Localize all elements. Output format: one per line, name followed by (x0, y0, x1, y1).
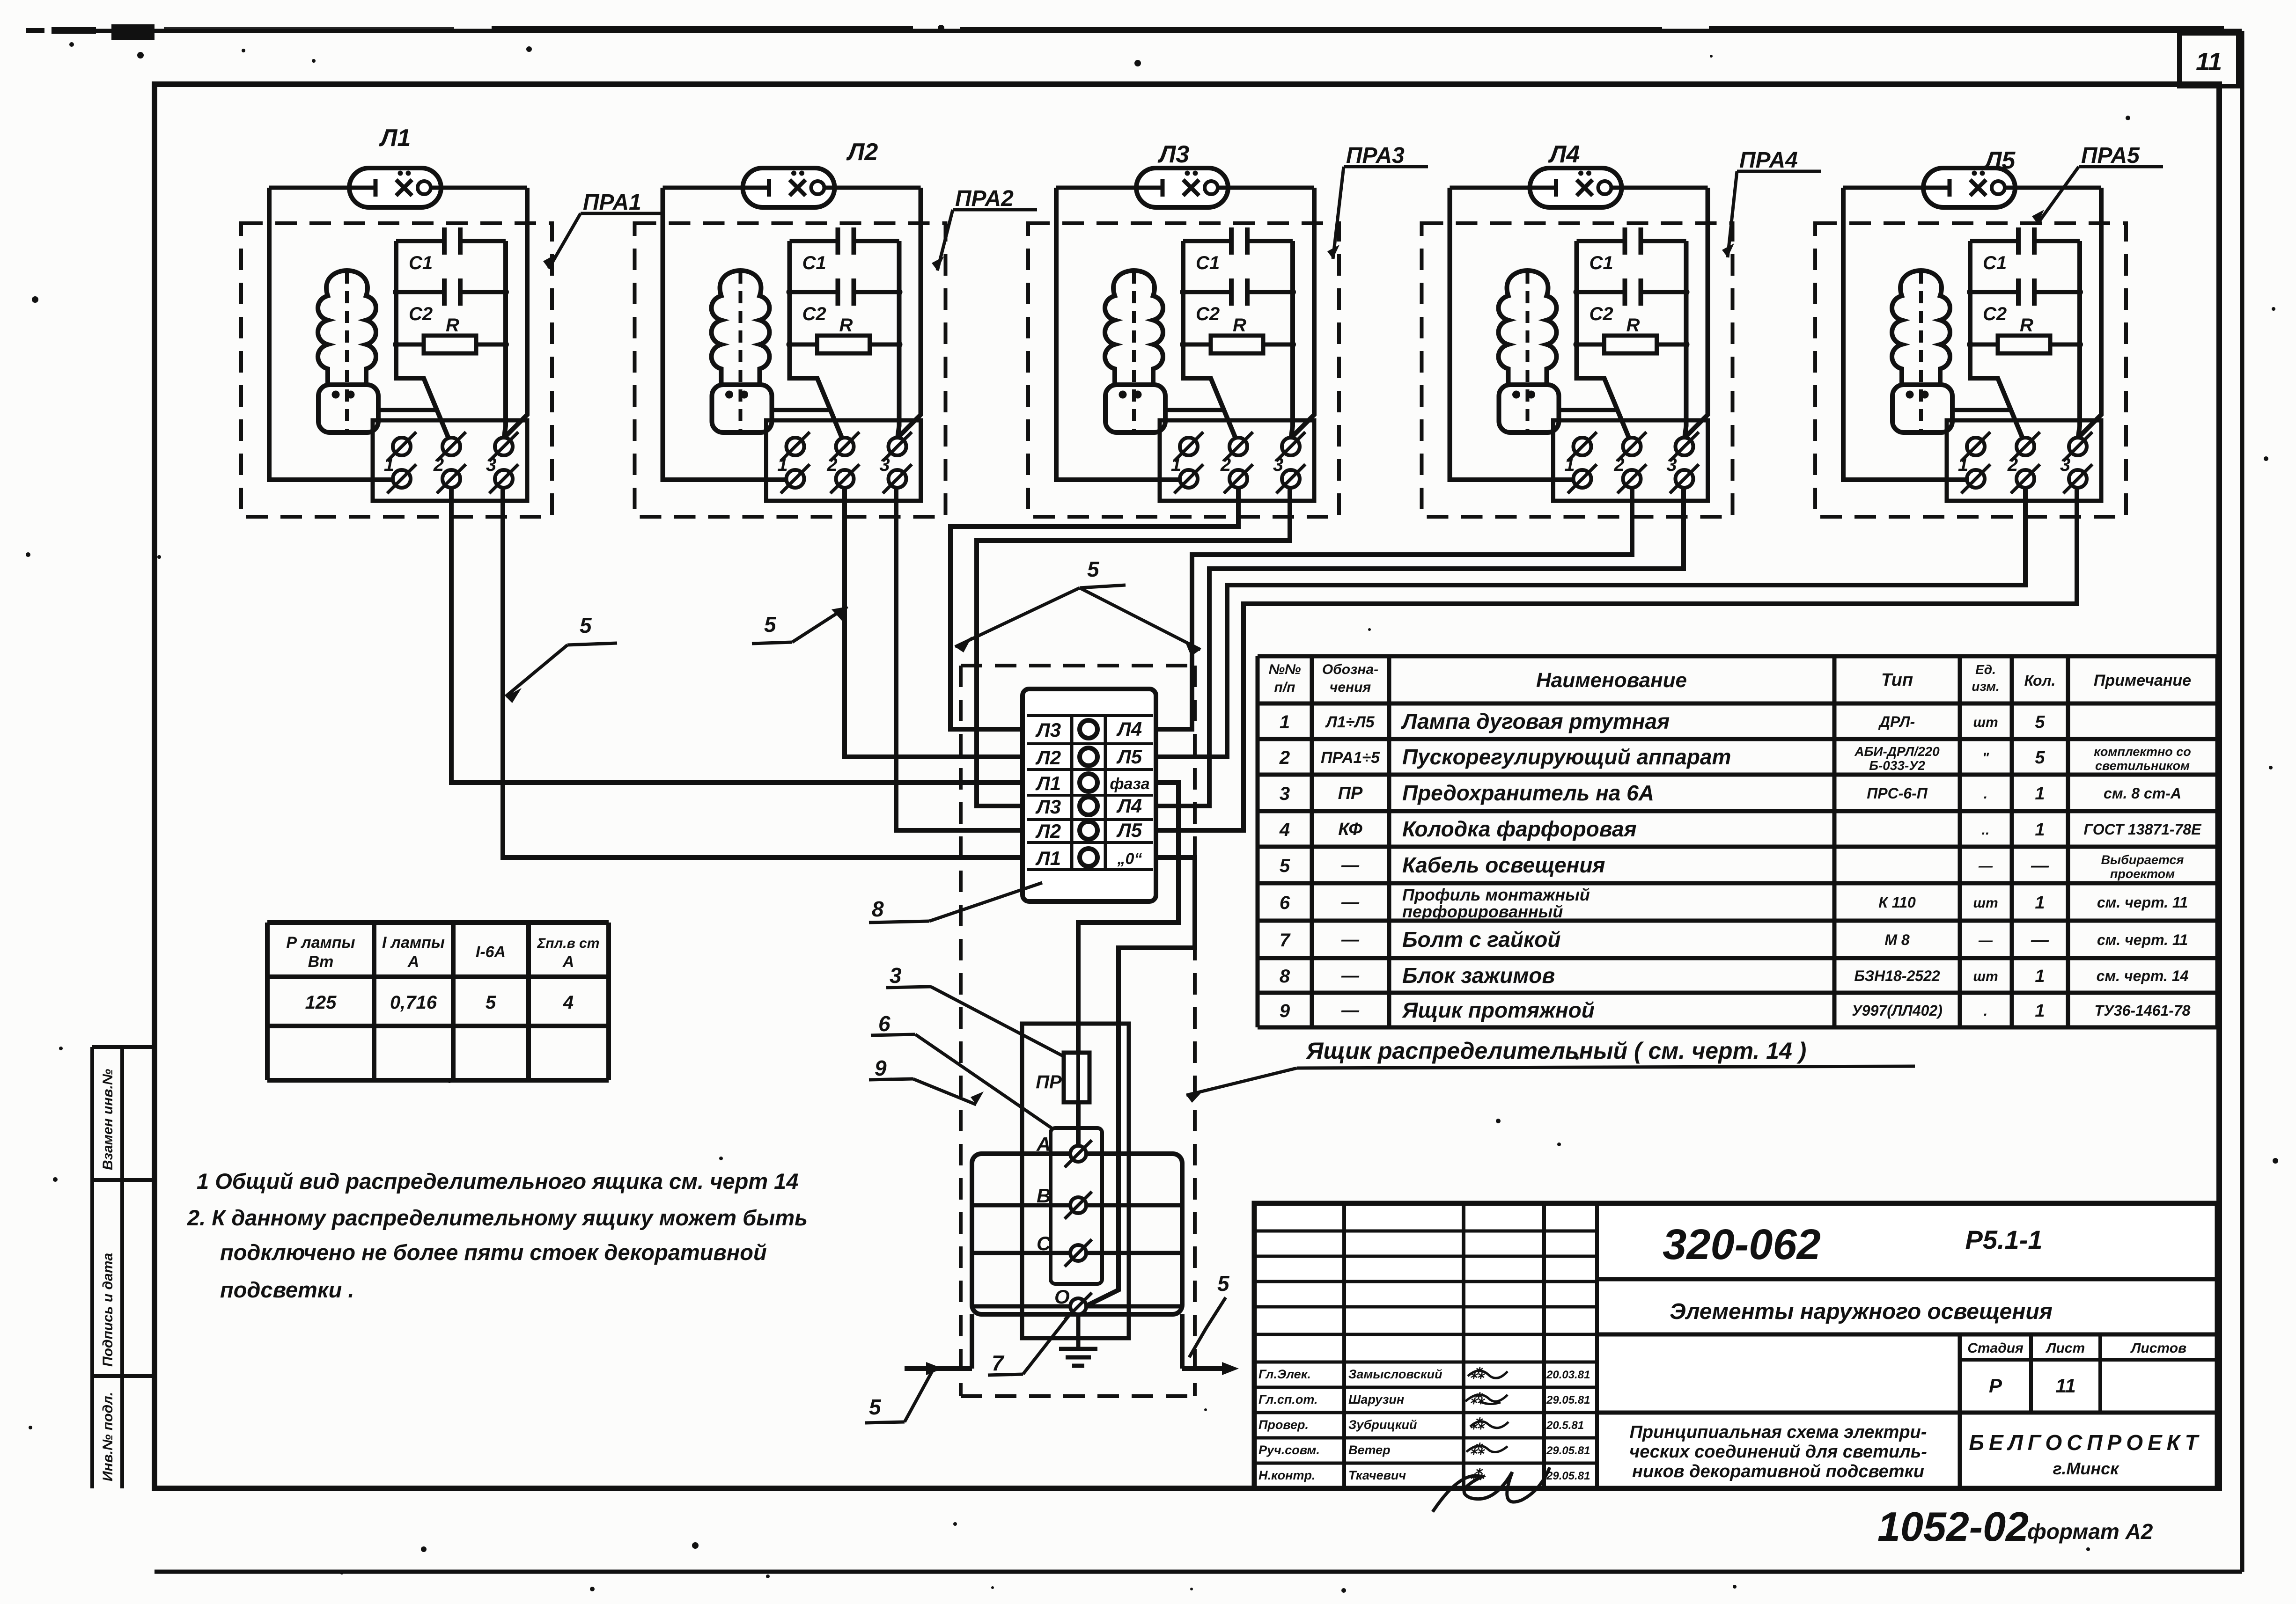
wire left rail to terminal 2 (1577, 241, 1629, 438)
resistor R (1183, 315, 1293, 353)
label ПРА4 with leader (1722, 148, 1821, 257)
wire lamp to right rail (1622, 186, 1708, 190)
wire lamp to right rail (441, 186, 527, 190)
svg-text:1 Общий вид распределительног: 1 Общий вид распределительного ящика см.… (197, 1169, 798, 1194)
ballast box ПРА1 (dashed) (241, 223, 552, 517)
ballast box ПРА2 (dashed) (635, 223, 946, 517)
svg-text:Л1: Л1 (1035, 847, 1061, 869)
svg-text:1052-02: 1052-02 (1877, 1503, 2029, 1550)
svg-text:2: 2 (1279, 747, 1290, 768)
svg-text:изм.: изм. (1972, 679, 2000, 694)
wire Л4 (terminal 3) to strip row Л4 (1156, 488, 1684, 806)
strip row borders (1027, 716, 1153, 870)
wire left rail to terminal 2 (1183, 241, 1236, 438)
svg-text:Кабель освещения: Кабель освещения (1402, 853, 1605, 877)
svg-text:Болт с гайкой: Болт с гайкой (1402, 927, 1560, 952)
svg-text:п/п: п/п (1274, 680, 1295, 695)
wire right rail to terminal 3 (2078, 241, 2080, 436)
wire right rail to terminal 3 (504, 241, 506, 436)
svg-text:—: — (1341, 966, 1360, 986)
svg-text:Ткачевич: Ткачевич (1348, 1468, 1406, 1482)
svg-text:29.05.81: 29.05.81 (1546, 1394, 1590, 1406)
svg-text:2: 2 (1220, 454, 1231, 475)
distribution box dashed enclosure (ящик распределительный) (961, 666, 1195, 1396)
svg-text:Σпл.в ст: Σпл.в ст (537, 936, 600, 951)
svg-text:2: 2 (433, 454, 444, 475)
svg-text:3: 3 (2060, 454, 2070, 475)
svg-text:29.05.81: 29.05.81 (1546, 1470, 1590, 1482)
svg-text:С2: С2 (802, 304, 826, 324)
svg-text:320-062: 320-062 (1663, 1221, 1821, 1268)
svg-text:.: . (1984, 1003, 1987, 1019)
wire Л1 (terminal 3) to strip row Л1 (503, 488, 1023, 857)
svg-text:Л3: Л3 (1035, 719, 1061, 741)
svg-text:Л5: Л5 (1983, 147, 2016, 174)
signature rows (1258, 1366, 1590, 1483)
wire lamp to left rail (269, 186, 349, 190)
svg-text:Колодка фарфоровая: Колодка фарфоровая (1402, 817, 1637, 841)
terminal block (1553, 420, 1708, 501)
bus row O (972, 1304, 1182, 1309)
svg-text:С1: С1 (1590, 253, 1613, 273)
svg-text:Л4: Л4 (1116, 795, 1142, 817)
terminal 2 (433, 432, 466, 493)
svg-text:С1: С1 (409, 253, 433, 273)
wire right side to terminal 3 (1292, 188, 1314, 437)
svg-text:Выбирается: Выбирается (2101, 853, 2184, 867)
svg-text:3: 3 (879, 454, 890, 475)
terminal strip (блок зажимов, item 8) (1023, 689, 1156, 901)
wire choke to terminal 2 (378, 408, 439, 412)
svg-text:Обозна-: Обозна- (1322, 662, 1378, 677)
label 9 with leader (869, 1056, 984, 1105)
capacitor C1 (790, 227, 899, 273)
svg-text:С1: С1 (1196, 253, 1220, 273)
svg-text:ГОСТ 13871-78Е: ГОСТ 13871-78Е (2083, 821, 2202, 838)
wire lamp to left rail (663, 186, 743, 190)
svg-text:Замысловский: Замысловский (1348, 1367, 1442, 1381)
svg-text:I-6А: I-6А (476, 943, 506, 961)
svg-text:Руч.совм.: Руч.совм. (1258, 1443, 1320, 1457)
svg-text:см. черт. 11: см. черт. 11 (2097, 894, 2188, 911)
svg-text:Блок зажимов: Блок зажимов (1402, 963, 1555, 988)
terminal С (1037, 1232, 1092, 1267)
wire lamp to left rail (1450, 186, 1530, 190)
svg-text:Л2: Л2 (1035, 747, 1061, 769)
svg-text:3: 3 (1273, 454, 1283, 475)
svg-text:ДРЛ-: ДРЛ- (1878, 713, 1915, 730)
svg-text:": " (1982, 750, 1989, 766)
wire Л5 (terminal 3) to strip row Л5 (1156, 488, 2077, 830)
svg-text:1: 1 (777, 454, 787, 475)
svg-text:С2: С2 (1983, 304, 2007, 324)
svg-text:М 8: М 8 (1884, 931, 1910, 948)
terminal 1 (1564, 432, 1597, 493)
junction dots (393, 289, 509, 348)
svg-text:Л2: Л2 (846, 139, 878, 166)
svg-text:20.5.81: 20.5.81 (1546, 1419, 1584, 1432)
wire Л1 (terminal 2) to strip row Л1 (451, 488, 1023, 783)
svg-text:Наименование: Наименование (1536, 669, 1687, 692)
capacitor C1 (1183, 227, 1293, 273)
svg-text:Р5.1-1: Р5.1-1 (1965, 1225, 2043, 1254)
fuse holder box (1022, 1024, 1129, 1338)
svg-text:Шарузин: Шарузин (1348, 1392, 1404, 1406)
wire lamp to right rail (2015, 186, 2101, 190)
svg-text:.: . (1984, 786, 1987, 802)
svg-text:1: 1 (1171, 454, 1181, 475)
svg-text:1: 1 (2035, 1001, 2045, 1021)
svg-text:29.05.81: 29.05.81 (1546, 1444, 1590, 1457)
wire Л2 (terminal 3) to strip row Л2 (896, 488, 1023, 830)
svg-text:С2: С2 (1590, 304, 1613, 324)
label ПРА5 with leader (2032, 143, 2163, 224)
capacitor C1 (396, 227, 506, 273)
svg-text:7: 7 (1280, 930, 1291, 951)
svg-text:1: 1 (1958, 454, 1968, 475)
terminal 2 (1220, 432, 1253, 493)
svg-text:6: 6 (1280, 893, 1290, 913)
wire right rail to terminal 3 (1685, 241, 1686, 436)
wire lamp to left rail (1056, 186, 1136, 190)
wire left side to terminal 1 (1843, 188, 1968, 480)
wire left rail to terminal 2 (790, 241, 842, 438)
wire left side to terminal 1 (1056, 188, 1181, 480)
svg-text:3: 3 (890, 963, 902, 988)
resistor R (396, 315, 506, 353)
terminal block (373, 420, 527, 501)
title block (1254, 1203, 2217, 1488)
fuse ПР (item 3) (1036, 1053, 1089, 1102)
svg-text:ПРА4: ПРА4 (1739, 148, 1798, 173)
svg-text:ников декоративной подсветки: ников декоративной подсветки (1632, 1462, 1924, 1481)
svg-text:2: 2 (826, 454, 837, 475)
svg-text:Пускорегулирующий аппарат: Пускорегулирующий аппарат (1402, 745, 1731, 769)
svg-text:2: 2 (2007, 454, 2018, 475)
label ПРА2 with leader (932, 186, 1037, 271)
terminal 3 (879, 432, 912, 493)
wire left side to terminal 1 (663, 188, 787, 480)
junction dots (787, 289, 903, 348)
svg-text:Гл.Элек.: Гл.Элек. (1258, 1367, 1311, 1381)
svg-text:Ед.: Ед. (1975, 662, 1996, 677)
notes text (187, 1169, 808, 1302)
terminal 3 (1666, 432, 1699, 493)
svg-text:3: 3 (1666, 454, 1677, 475)
supply bus box (972, 1154, 1182, 1314)
wire right rail to terminal 3 (898, 241, 899, 436)
capacitor C2 (1183, 278, 1293, 324)
choke (ballast inductor) (318, 271, 378, 434)
incoming supply cable with arrow (905, 1314, 972, 1375)
parts list table (1258, 656, 2217, 1027)
svg-text:см. черт. 14: см. черт. 14 (2097, 967, 2189, 984)
terminal 1 (1171, 432, 1203, 493)
svg-text:0,716: 0,716 (390, 992, 437, 1013)
svg-text:Ветер: Ветер (1348, 1443, 1391, 1457)
strip terminal rings (1080, 720, 1097, 866)
ballast box ПРА3 (dashed) (1028, 223, 1339, 517)
terminal 1 (777, 432, 809, 493)
label 7 with leader (ground bolt) (988, 1313, 1071, 1375)
svg-text:R: R (1626, 315, 1640, 336)
svg-text:Л3: Л3 (1035, 796, 1061, 818)
svg-text:—: — (1978, 858, 1993, 874)
svg-text:3: 3 (486, 454, 496, 475)
svg-text:Кол.: Кол. (2024, 672, 2056, 689)
sheet outer border (56, 29, 2242, 33)
wire right rail to terminal 3 (1291, 241, 1293, 436)
svg-text:ПРА5: ПРА5 (2081, 143, 2140, 168)
parts table headers (1269, 662, 2191, 695)
svg-text:R: R (839, 315, 853, 336)
wire right side to terminal 3 (2079, 188, 2101, 437)
svg-text:—: — (1341, 893, 1360, 912)
wire Л2 (terminal 2) to strip row Л2 (845, 488, 1023, 757)
wire choke to terminal 2 (772, 408, 832, 412)
label ПРА3 with leader (1327, 143, 1428, 259)
svg-text:Н.контр.: Н.контр. (1258, 1468, 1316, 1482)
left margin stamp boxes (92, 1047, 155, 1488)
svg-text:..: .. (1982, 822, 1990, 838)
svg-text:R: R (1233, 315, 1246, 336)
svg-text:г.Минск: г.Минск (2053, 1459, 2119, 1478)
wire left side to terminal 1 (269, 188, 394, 480)
svg-text:КФ: КФ (1338, 820, 1362, 839)
svg-text:7: 7 (992, 1351, 1005, 1375)
svg-text:Б-033-У2: Б-033-У2 (1869, 758, 1925, 773)
choke (ballast inductor) (1105, 271, 1165, 434)
svg-text:А: А (1036, 1133, 1051, 1155)
outgoing supply cable with arrow (1182, 1314, 1239, 1375)
terminal block (1160, 420, 1314, 501)
svg-text:см. 8 ст-А: см. 8 ст-А (2104, 785, 2181, 802)
svg-text:„0“: „0“ (1117, 850, 1142, 868)
choke (ballast inductor) (1499, 271, 1559, 434)
svg-text:С1: С1 (802, 253, 826, 273)
svg-text:У997(ЛЛ402): У997(ЛЛ402) (1852, 1002, 1943, 1019)
svg-text:Л2: Л2 (1035, 820, 1061, 842)
svg-text:3: 3 (1280, 784, 1290, 804)
svg-text:В: В (1037, 1185, 1051, 1207)
svg-text:2: 2 (1613, 454, 1624, 475)
resistor R (1970, 315, 2080, 353)
terminal О (1054, 1286, 1092, 1320)
svg-text:9: 9 (1280, 1001, 1290, 1021)
svg-text:Р лампы: Р лампы (286, 934, 355, 952)
label 5 (cable) above strip, two arrows (955, 557, 1200, 656)
svg-text:Лампа дуговая ртутная: Лампа дуговая ртутная (1401, 709, 1670, 733)
svg-text:Р: Р (1989, 1375, 2002, 1397)
terminal block (766, 420, 921, 501)
svg-text:С2: С2 (1196, 304, 1220, 324)
svg-text:11: 11 (2196, 48, 2222, 76)
svg-text:8: 8 (872, 897, 884, 921)
svg-text:Зубрицкий: Зубрицкий (1348, 1418, 1417, 1432)
label ПРА1 with leader (543, 190, 665, 269)
terminal 3 (2060, 432, 2092, 493)
svg-text:Вт: Вт (308, 953, 334, 971)
svg-text:11: 11 (2055, 1375, 2076, 1397)
wire fuse to terminal А (1076, 1102, 1081, 1145)
svg-text:5: 5 (1087, 557, 1100, 581)
wire right side to terminal 3 (898, 188, 921, 437)
svg-text:Л5: Л5 (1116, 819, 1142, 841)
svg-text:5: 5 (2035, 748, 2045, 768)
svg-text:перфорированный: перфорированный (1402, 902, 1563, 921)
svg-text:формат А2: формат А2 (2027, 1519, 2153, 1544)
wire Л4 (terminal 2) to strip row Л4 (1156, 488, 1632, 729)
svg-text:Тип: Тип (1881, 670, 1913, 690)
bus row B (972, 1203, 1182, 1208)
svg-text:4: 4 (1279, 820, 1290, 840)
label 8 with leader (блок зажимов) (869, 883, 1042, 923)
svg-text:ПРА2: ПРА2 (955, 186, 1014, 211)
lamp Л4 symbol (1530, 168, 1622, 207)
svg-text:А: А (562, 953, 574, 971)
svg-text:Принципиальная схема электри-: Принципиальная схема электри- (1630, 1422, 1927, 1442)
lamp data table (267, 923, 609, 1080)
choke (ballast inductor) (712, 271, 772, 434)
svg-text:шт: шт (1973, 969, 1998, 984)
wire Л3 (terminal 2) to strip row Л3 (950, 488, 1238, 729)
junction dots (1967, 289, 2083, 348)
svg-text:Предохранитель на 6А: Предохранитель на 6А (1402, 781, 1654, 805)
svg-text:125: 125 (305, 992, 337, 1013)
terminal 2 (2007, 432, 2040, 493)
svg-text:АБИ-ДРЛ/220: АБИ-ДРЛ/220 (1854, 744, 1940, 759)
svg-text:№№: №№ (1269, 662, 1301, 677)
svg-text:—: — (2031, 930, 2049, 950)
svg-text:ПРС-6-П: ПРС-6-П (1867, 785, 1928, 802)
svg-text:1: 1 (2035, 893, 2045, 913)
terminal block (1947, 420, 2101, 501)
svg-text:ПР: ПР (1338, 784, 1363, 803)
svg-text:I лампы: I лампы (382, 934, 445, 952)
svg-text:ПРА3: ПРА3 (1346, 143, 1405, 168)
wire choke to terminal 2 (1952, 408, 2013, 412)
label 5 (cable) bottom-right (1189, 1271, 1230, 1357)
terminal А (1036, 1133, 1092, 1167)
svg-text:5: 5 (764, 612, 777, 637)
svg-text:светильником: светильником (2095, 759, 2190, 773)
wire Л5 (terminal 2) to strip row Л5 (1156, 488, 2025, 757)
svg-text:1: 1 (384, 454, 394, 475)
svg-text:4: 4 (563, 992, 574, 1013)
svg-text:ТУ36-1461-78: ТУ36-1461-78 (2095, 1002, 2191, 1019)
svg-text:—: — (1341, 930, 1360, 950)
svg-text:Л4: Л4 (1116, 718, 1142, 740)
svg-text:6: 6 (878, 1011, 890, 1036)
wire left side to terminal 1 (1450, 188, 1575, 480)
svg-text:5: 5 (1280, 856, 1290, 876)
svg-text:—: — (1341, 1001, 1360, 1020)
lamp Л1 symbol (349, 168, 441, 207)
parts table rows (1279, 709, 2202, 1022)
svg-text:8: 8 (1280, 966, 1290, 987)
terminal 3 (486, 432, 518, 493)
capacitor C1 (1970, 227, 2080, 273)
squiggle signatures (1433, 1370, 1550, 1512)
lamp Л5 symbol (1923, 168, 2015, 207)
svg-text:О: О (1054, 1286, 1070, 1308)
svg-text:5: 5 (580, 613, 592, 637)
svg-text:Л4: Л4 (1548, 141, 1580, 168)
svg-text:ПР: ПР (1036, 1072, 1062, 1092)
svg-text:Ящик протяжной: Ящик протяжной (1402, 998, 1595, 1022)
svg-text:К 110: К 110 (1878, 894, 1916, 911)
svg-text:Провер.: Провер. (1258, 1418, 1309, 1432)
label 5 (cable) bottom-left (865, 1370, 933, 1423)
svg-text:9: 9 (875, 1056, 887, 1080)
svg-text:Л1: Л1 (1035, 772, 1061, 794)
capacitor C1 (1577, 227, 1686, 273)
svg-text:1: 1 (1564, 454, 1575, 475)
svg-text:1: 1 (1280, 712, 1290, 732)
terminal В (1037, 1185, 1092, 1219)
wire choke to terminal 2 (1165, 408, 1226, 412)
resistor R (790, 315, 899, 353)
svg-text:Листов: Листов (2130, 1340, 2186, 1356)
svg-text:подсветки .: подсветки . (220, 1277, 354, 1302)
svg-text:БЕЛГОСПРОЕКТ: БЕЛГОСПРОЕКТ (1969, 1430, 2202, 1455)
svg-text:Стадия: Стадия (1967, 1340, 2024, 1356)
svg-text:Л5: Л5 (1116, 746, 1142, 768)
capacitor C2 (396, 278, 506, 324)
callout Ящик распределительный (1186, 1038, 1915, 1103)
svg-text:ПРА1: ПРА1 (583, 190, 641, 215)
wire right side to terminal 3 (1685, 188, 1708, 437)
bus row C (972, 1251, 1182, 1255)
svg-text:5: 5 (2035, 712, 2045, 732)
wire left rail to terminal 2 (1970, 241, 2023, 438)
svg-text:Элементы наружного освещения: Элементы наружного освещения (1670, 1299, 2053, 1324)
svg-text:С1: С1 (1983, 253, 2007, 273)
wire right side to terminal 3 (505, 188, 527, 437)
label 3 with leader (886, 963, 1063, 1056)
terminal 1 (1958, 432, 1990, 493)
wire lamp to right rail (835, 186, 921, 190)
ground symbol (1059, 1314, 1097, 1366)
label 5 (cable) upper-middle (752, 607, 847, 644)
svg-text:Подпись и дата: Подпись и дата (100, 1253, 116, 1367)
terminal 3 (1273, 432, 1305, 493)
terminal 2 (826, 432, 859, 493)
page number box 11 (2179, 33, 2238, 86)
wire фаза from strip to fuse (1078, 783, 1178, 1053)
junction dots (1574, 289, 1690, 348)
wire Л3 (terminal 3) to strip row Л3 (977, 488, 1290, 806)
svg-text:20.03.81: 20.03.81 (1546, 1369, 1590, 1381)
svg-text:Л1: Л1 (379, 125, 411, 152)
ballast box ПРА5 (dashed) (1815, 223, 2126, 517)
svg-text:ПРА1÷5: ПРА1÷5 (1321, 749, 1380, 767)
svg-text:⁂: ⁂ (1470, 1442, 1485, 1458)
svg-text:—: — (1978, 933, 1993, 948)
svg-text:БЗН18-2522: БЗН18-2522 (1854, 967, 1940, 984)
lamp Л3 symbol (1136, 168, 1228, 207)
svg-text:R: R (2020, 315, 2033, 336)
svg-text:—: — (2031, 856, 2049, 876)
svg-text:Л1÷Л5: Л1÷Л5 (1325, 713, 1375, 731)
junction dots (1180, 289, 1296, 348)
svg-text:чения: чения (1330, 680, 1371, 695)
svg-text:А: А (407, 953, 419, 971)
wire lamp to right rail (1228, 186, 1314, 190)
svg-text:5: 5 (486, 992, 496, 1013)
svg-text:подключено не более пяти стоек: подключено не более пяти стоек декоратив… (220, 1240, 767, 1265)
svg-text:1: 1 (2035, 967, 2045, 986)
